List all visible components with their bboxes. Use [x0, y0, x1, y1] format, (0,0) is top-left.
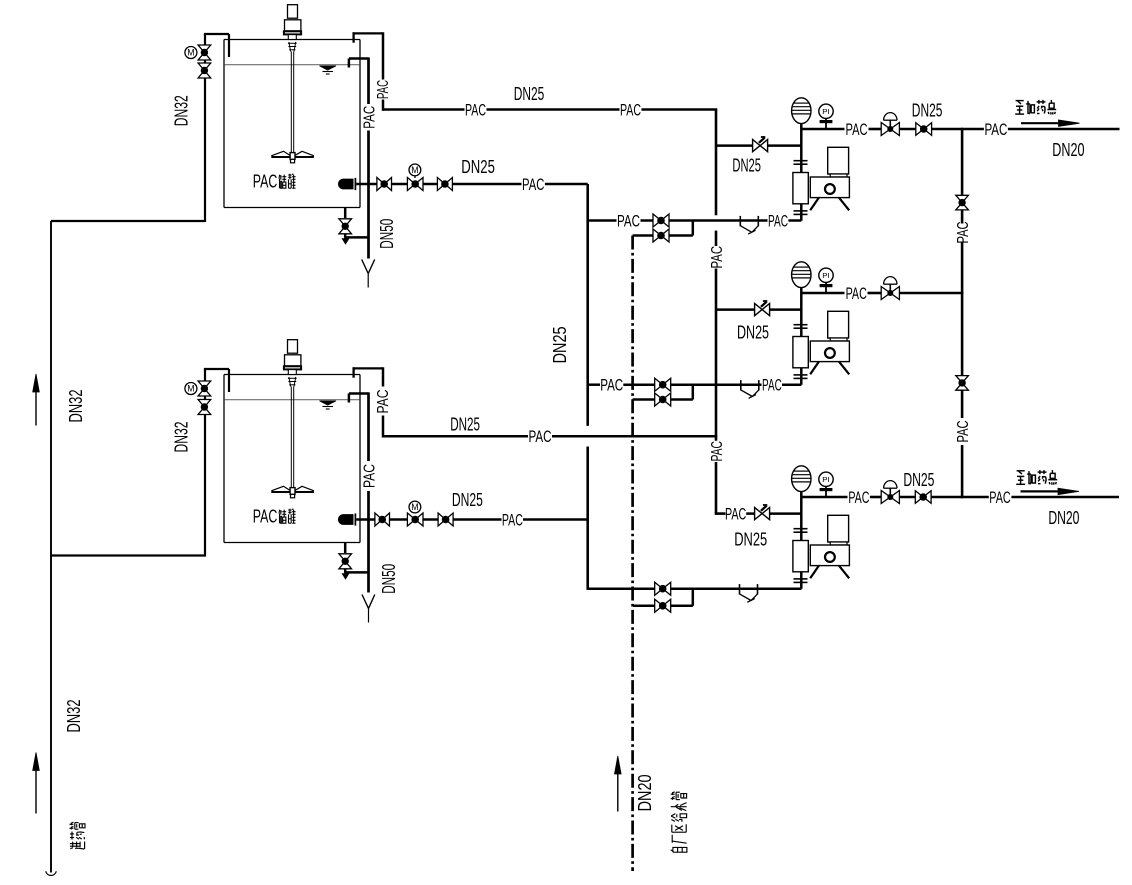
wire trunk seg1: [961, 128, 964, 196]
svg-text:PI: PI: [822, 109, 830, 116]
wire tank2 outlet a: [356, 518, 374, 521]
wire pump3 discharge c: [899, 496, 915, 499]
wire tank2 top elbow: [204, 369, 229, 392]
svg-text:PAC: PAC: [846, 120, 868, 139]
wire pump2 discharge c: [899, 292, 963, 295]
valve tank1 outlet motorized: [407, 164, 423, 191]
check valve pump1: [916, 123, 932, 136]
label DN25 tank2 top line: [450, 415, 480, 435]
motor actuator M tank1 inlet: [185, 47, 197, 59]
valve pump3 flush water: [655, 599, 671, 612]
svg-text:DN50: DN50: [379, 564, 399, 594]
svg-text:M: M: [411, 502, 418, 512]
wire tank1 dip tube: [353, 32, 384, 42]
valve tank1 outlet 1: [377, 178, 392, 191]
wire tank1 top PAC drop lower: [382, 100, 385, 111]
label PAC trunk upper: [955, 222, 972, 244]
mixer M1 on tank T1: [271, 5, 314, 163]
tank T2 water level: [225, 400, 360, 409]
svg-text:PAC: PAC: [361, 464, 378, 488]
label PAC tank2 overflow: [361, 464, 378, 488]
wire tank2 overflow drop lower: [367, 491, 370, 593]
wire tank2 outlet e: [523, 518, 588, 521]
wire tank1 top PAC drop upper: [382, 32, 385, 79]
svg-text:PAC: PAC: [725, 505, 746, 524]
valve tank2 outlet motorized: [407, 501, 423, 526]
svg-text:PAC: PAC: [955, 222, 972, 244]
dosing pump P1: [792, 98, 850, 221]
svg-text:PI: PI: [822, 273, 830, 280]
wire main feed pipe DN32 vertical: [50, 221, 52, 873]
wire tank2 top PAC drop upper: [382, 367, 385, 386]
wire pump3 discharge b: [870, 496, 881, 499]
tank T1 water level: [225, 65, 360, 74]
wire header 716 seg1: [715, 110, 718, 216]
wire tank2 overflow drop upper: [367, 392, 370, 461]
wire plant water line DN20 dash-dot: [631, 236, 634, 872]
label PAC pump2 suction l: [600, 376, 623, 395]
nozzle tank1 outlet: [338, 178, 355, 190]
svg-text:PAC: PAC: [253, 171, 278, 192]
label PAC outlet1: [984, 120, 1007, 139]
valve trunk upper: [956, 195, 969, 210]
label 进药管: [70, 822, 86, 849]
svg-text:PAC: PAC: [620, 101, 641, 120]
valve pump1 flush water: [653, 229, 669, 242]
wire tank1 outlet e: [545, 183, 588, 186]
wire suction header seg2: [586, 447, 589, 590]
label PAC header 716 upper: [709, 246, 726, 269]
drain arrow tick tank1: [342, 239, 349, 244]
wire header 716 seg3: [715, 269, 718, 441]
wire pump2 suction d: [782, 383, 801, 386]
svg-text:DN25: DN25: [461, 157, 495, 177]
pressure indicator PI pump1: [819, 104, 833, 129]
wire tank2 top line b: [552, 435, 717, 438]
drain arrow tick tank2: [342, 574, 349, 579]
svg-text:DN25: DN25: [903, 470, 934, 490]
svg-text:PAC: PAC: [529, 427, 552, 446]
label PAC pump1 suction r: [768, 212, 788, 231]
wire trunk seg4: [961, 390, 964, 418]
label DN20 water line: [635, 774, 655, 811]
svg-text:PAC: PAC: [846, 284, 867, 303]
relief valve pump2: [755, 301, 770, 316]
svg-text:PAC: PAC: [768, 212, 788, 231]
wire pump1 discharge d: [932, 128, 984, 131]
svg-text:DN32: DN32: [64, 700, 84, 733]
valve pump3 suction: [655, 582, 671, 595]
wire trunk seg5: [961, 445, 964, 498]
label PAC header 716 lower: [709, 441, 726, 462]
nozzle tank2 outlet: [338, 513, 355, 525]
wire pump1 discharge a: [801, 128, 844, 131]
wire pump1 relief branch: [716, 144, 801, 147]
label PAC tank1 overflow: [361, 106, 378, 129]
wire header 716 seg2: [715, 231, 718, 246]
label DN25 pump3 branch: [734, 530, 767, 550]
wire tank1 outlet b: [392, 183, 408, 186]
wire suction header seg1: [586, 184, 589, 426]
motor actuator M tank2 inlet: [185, 383, 197, 395]
label PAC top header 1: [465, 101, 486, 120]
wire top header a: [383, 108, 465, 111]
wire pump1 discharge c: [899, 128, 915, 131]
wire pump2 relief branch: [716, 308, 801, 311]
svg-text:DN20: DN20: [1052, 140, 1084, 160]
svg-text:PI: PI: [822, 477, 830, 484]
wire tank1 riser DN32: [204, 34, 206, 222]
svg-text:PAC: PAC: [600, 376, 623, 395]
label PAC pump1 suction l: [617, 212, 640, 231]
label 至加药点 2: [1016, 470, 1057, 485]
wire tank1 outlet a: [356, 183, 376, 186]
valve tank2 inlet upper: [198, 381, 211, 396]
label DN25 pump2 branch: [737, 323, 769, 343]
wire tank2 outlet c: [423, 518, 438, 521]
valve tank2 outlet 2: [438, 513, 453, 526]
svg-text:DN32: DN32: [66, 390, 86, 423]
wire tank2 drain elbow: [344, 570, 368, 573]
strainer pump3: [740, 584, 758, 602]
svg-text:PAC: PAC: [361, 106, 378, 129]
label DN25 pump1 branch: [732, 156, 761, 176]
label PAC tank2 top drop: [375, 390, 392, 414]
valve tank1 drain: [339, 219, 352, 234]
wire tank2 top line a: [383, 435, 528, 438]
wire outlet2: [1011, 496, 1119, 499]
wire pump2 water tap: [633, 398, 655, 401]
svg-text:DN25: DN25: [737, 323, 769, 343]
svg-text:DN32: DN32: [172, 422, 192, 453]
wire feed branch to tank1: [51, 220, 205, 222]
wire pump2 suction b: [623, 383, 654, 386]
wire pump3 discharge d: [931, 496, 989, 499]
label PAC top header 2: [620, 101, 641, 120]
label PAC pump3 discharge: [848, 488, 869, 507]
svg-text:DN20: DN20: [1048, 508, 1079, 528]
svg-text:DN25: DN25: [912, 100, 943, 120]
svg-text:PAC: PAC: [848, 488, 869, 507]
wire feed branch to tank2: [51, 554, 205, 556]
wire pump1 suction d: [788, 219, 801, 222]
pressure indicator PI pump2: [819, 268, 833, 293]
dosing pump P2: [792, 262, 850, 385]
wire tank1 overflow inner stub: [349, 59, 369, 68]
wire pump3 relief branch: [746, 512, 801, 515]
svg-text:DN25: DN25: [732, 156, 761, 176]
valve pump2 suction: [655, 378, 671, 391]
wire pump2 suction a: [588, 383, 600, 386]
wire tank1 overflow drop upper: [367, 57, 370, 104]
svg-text:DN32: DN32: [172, 95, 192, 126]
wire pump3 suction a: [588, 587, 655, 590]
label DN25 top header: [514, 84, 545, 104]
wire pump3 suction b: [670, 587, 801, 590]
label PAC outlet2: [989, 488, 1010, 507]
valve pump1 suction: [653, 214, 669, 227]
label PAC储罐 tank1: [253, 171, 296, 192]
wire pump2 water jog: [671, 385, 693, 400]
svg-text:DN25: DN25: [550, 326, 570, 363]
wire pump2 suction c: [671, 383, 762, 386]
svg-text:PAC: PAC: [253, 506, 278, 527]
flow arrow up middle: [33, 374, 40, 426]
wire pump1 suction b: [641, 219, 654, 222]
svg-text:PAC: PAC: [955, 421, 972, 443]
wire tank1 top elbow: [204, 34, 229, 57]
wire tank2 riser DN32: [204, 369, 206, 557]
wire tank1 overflow drop lower: [367, 131, 370, 259]
label DN50 tank1 drain: [377, 219, 397, 249]
wire tank1 outlet d: [452, 183, 521, 186]
relief valve pump3: [755, 505, 770, 520]
label PAC pump1 discharge: [846, 120, 868, 139]
drain outlet symbol tank2: [362, 595, 375, 623]
svg-text:DN50: DN50: [377, 219, 397, 249]
wire tank2 outlet d: [453, 518, 501, 521]
wire trunk seg3: [961, 242, 964, 375]
wire outlet1: [1008, 128, 1120, 131]
svg-text:M: M: [411, 165, 418, 175]
label DN32 lower: [64, 700, 84, 733]
valve tank1 outlet 2: [437, 178, 452, 191]
svg-text:PAC: PAC: [465, 101, 486, 120]
wire pump1 suction a: [588, 219, 617, 222]
label DN25 pump1 outlet: [912, 100, 943, 120]
label DN25 pump3 outlet: [903, 470, 934, 490]
wire pump1 water tap: [633, 234, 653, 237]
label DN32 tank1 riser: [172, 95, 192, 126]
svg-text:M: M: [187, 48, 194, 58]
valve tank2 drain: [339, 554, 352, 569]
wire top header c: [642, 108, 718, 111]
wire pump3 water jog: [670, 589, 692, 606]
valve trunk lower: [956, 376, 969, 391]
label PAC tank2 outlet: [502, 511, 523, 530]
label DN25 tank1 outlet: [461, 157, 495, 177]
wire tank2 outlet b: [390, 518, 408, 521]
label PAC tank1 outlet: [522, 175, 544, 194]
svg-text:PAC: PAC: [762, 376, 782, 395]
drain outlet symbol tank1: [362, 260, 375, 288]
wire tank2 top PAC drop lower: [382, 416, 385, 438]
svg-text:PAC: PAC: [617, 212, 640, 231]
svg-text:PAC: PAC: [709, 246, 726, 269]
feed pipe bottom tip: [46, 871, 57, 875]
mixer M2 on tank T2: [271, 340, 314, 498]
label PAC储罐 tank2: [253, 506, 296, 527]
svg-text:PAC: PAC: [522, 175, 544, 194]
arrow to dosing point 1: [1021, 120, 1080, 126]
label PAC pump2 suction r: [762, 376, 782, 395]
label DN32 tank2 riser: [172, 422, 192, 453]
svg-text:PAC: PAC: [502, 511, 523, 530]
valve tank1 inlet lower: [198, 63, 211, 78]
label DN50 tank2 drain: [379, 564, 399, 594]
label DN20 outlet1: [1052, 140, 1084, 160]
label DN25 suction header: [550, 326, 570, 363]
strainer pump1: [740, 216, 758, 234]
valve tank2 outlet 1: [375, 513, 390, 526]
valve tank2 inlet lower: [198, 400, 211, 415]
wire pump3 water tap: [633, 605, 655, 608]
wire tank2 bottom drain stub: [344, 543, 347, 554]
svg-text:DN25: DN25: [452, 490, 483, 510]
wire tank1 outlet c: [423, 183, 438, 186]
valve pump2 flush water: [655, 393, 671, 406]
back-pressure valve pump1: [881, 113, 899, 136]
wire tank1 drain elbow: [344, 235, 368, 238]
label 至加药点 1: [1015, 100, 1056, 115]
wire trunk seg2: [961, 210, 964, 224]
label PAC trunk lower: [955, 421, 972, 443]
svg-text:DN25: DN25: [734, 530, 767, 550]
dosing pump P3: [792, 466, 850, 589]
svg-text:PAC: PAC: [709, 441, 726, 462]
label PAC pump2 discharge: [846, 284, 867, 303]
arrow to dosing point 2: [1021, 488, 1080, 494]
back-pressure valve pump2: [881, 277, 899, 300]
wire pump2 discharge b: [868, 292, 882, 295]
label DN25 tank2 outlet: [452, 490, 483, 510]
wire pump3 discharge a: [802, 496, 848, 499]
svg-text:PAC: PAC: [984, 120, 1007, 139]
label PAC tank1 top drop: [375, 80, 392, 99]
flow arrow up lower: [33, 753, 40, 814]
label DN20 outlet2: [1048, 508, 1079, 528]
label PAC tank2 top line: [529, 427, 552, 446]
pressure indicator PI pump3: [819, 472, 833, 497]
label PAC pump3 branch: [725, 505, 746, 524]
flow arrow water line: [615, 756, 622, 812]
svg-text:DN25: DN25: [450, 415, 480, 435]
tank T1 shell: [224, 40, 360, 208]
relief valve pump1: [753, 137, 768, 152]
wire tank2 dip tube: [353, 367, 384, 377]
check valve pump3: [915, 491, 931, 504]
strainer pump2: [741, 380, 759, 398]
label DN32 middle: [66, 390, 86, 423]
wire pump2 discharge a: [801, 292, 844, 295]
svg-text:M: M: [187, 384, 194, 394]
wire pump1 water jog: [669, 221, 693, 236]
wire pump1 discharge b: [869, 128, 882, 131]
back-pressure valve pump3: [881, 481, 899, 504]
svg-text:DN25: DN25: [514, 84, 545, 104]
svg-text:PAC: PAC: [375, 80, 392, 99]
svg-text:PAC: PAC: [989, 488, 1010, 507]
wire header 716 seg4: [715, 462, 726, 514]
svg-text:PAC: PAC: [375, 390, 392, 414]
wire tank2 overflow inner stub: [349, 394, 369, 403]
svg-text:DN20: DN20: [635, 774, 655, 811]
tank T2 shell: [224, 375, 360, 543]
wire tank1 bottom drain stub: [344, 208, 347, 219]
wire pump1 suction c: [669, 219, 768, 222]
label 自厂区给水管: [671, 792, 687, 852]
valve tank1 inlet upper: [198, 45, 211, 60]
wire top header b: [487, 108, 620, 111]
